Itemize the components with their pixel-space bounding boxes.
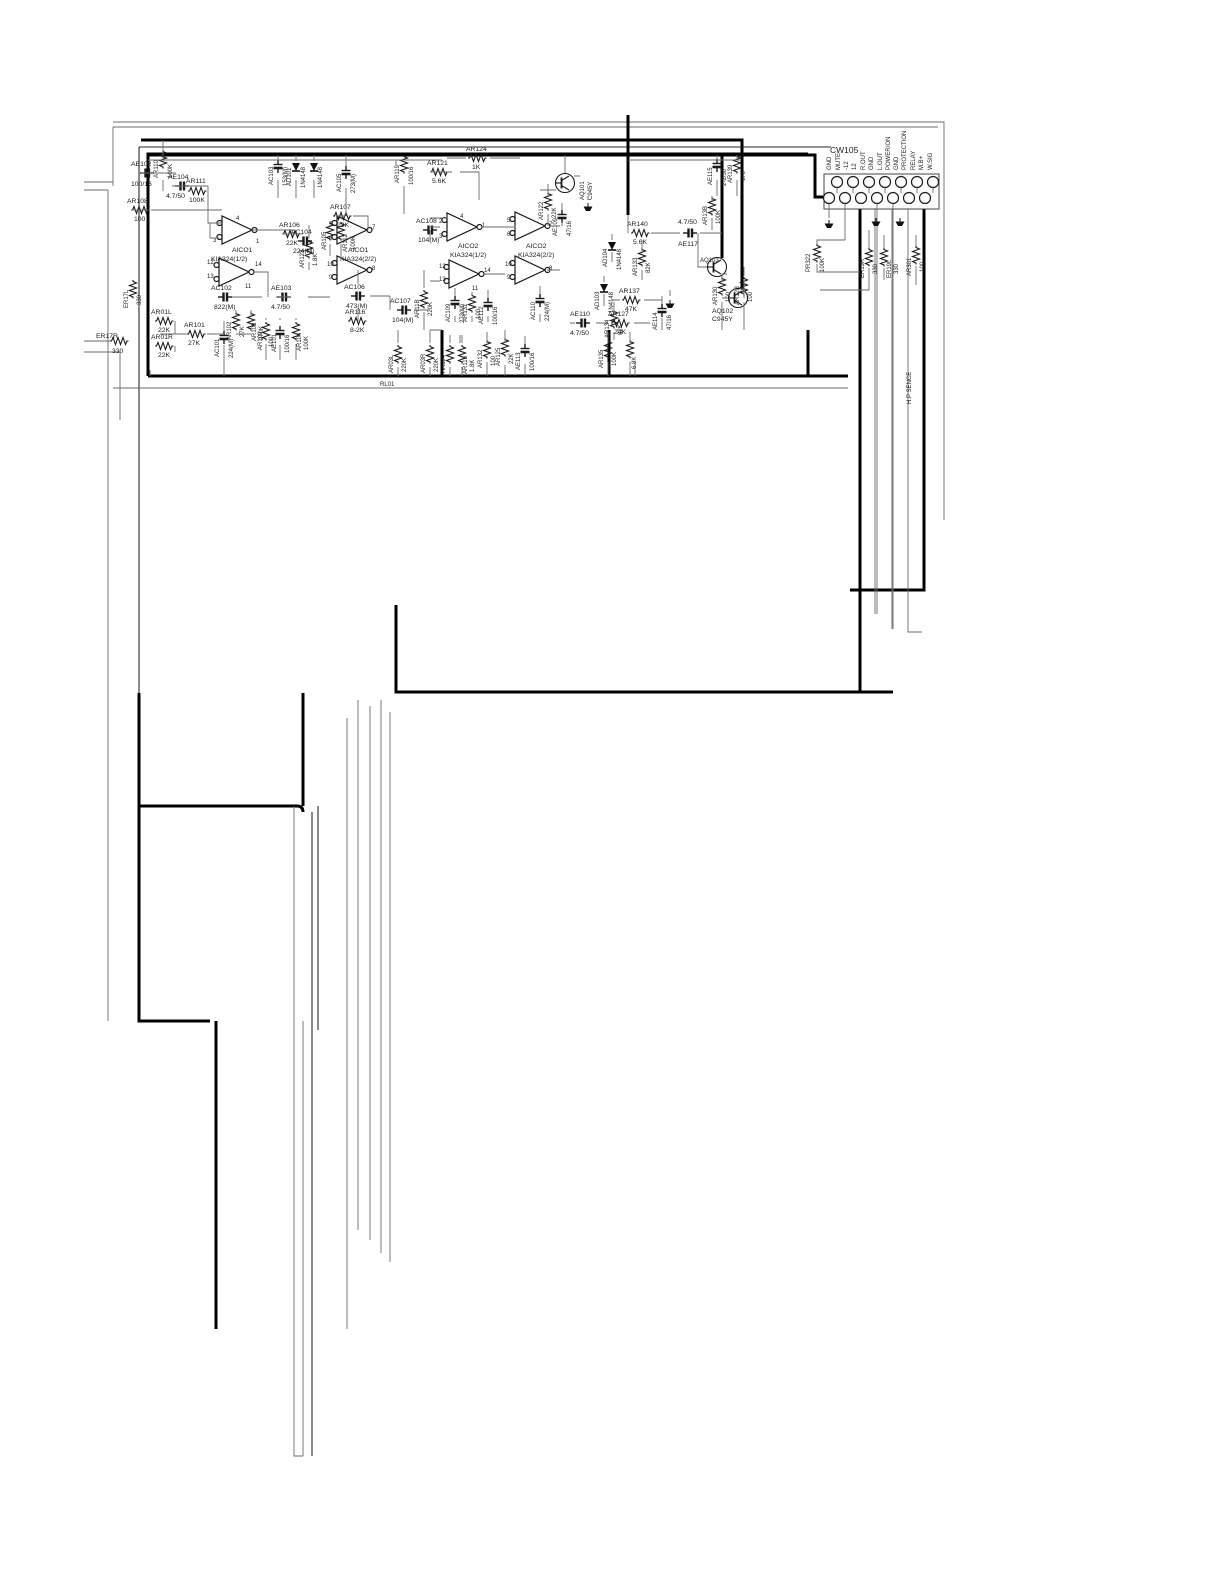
svg-text:AQ102: AQ102 — [712, 308, 733, 315]
svg-text:AR104: AR104 — [297, 332, 303, 351]
svg-text:11: 11 — [472, 286, 479, 292]
svg-text:12: 12 — [439, 264, 446, 270]
svg-text:100: 100 — [134, 216, 146, 223]
wire CW105 drop R.OUT — [891, 209, 893, 629]
svg-text:AR101: AR101 — [184, 322, 205, 329]
svg-text:AR03R: AR03R — [421, 353, 427, 373]
svg-text:220K: 220K — [428, 302, 434, 316]
wire thick notch — [807, 330, 810, 376]
svg-text:AR116: AR116 — [345, 309, 365, 316]
svg-text:KIA324(2/2): KIA324(2/2) — [518, 252, 554, 259]
svg-text:AR135: AR135 — [599, 349, 605, 368]
svg-text:AR115: AR115 — [463, 355, 469, 374]
svg-text:AD101: AD101 — [287, 167, 293, 186]
svg-text:AE102: AE102 — [131, 161, 152, 168]
resistor AR114 — [441, 345, 454, 373]
svg-text:22K: 22K — [158, 352, 171, 359]
svg-text:100K: 100K — [612, 352, 618, 366]
capacitor AE101 — [272, 326, 291, 353]
resistor AR01L — [151, 309, 174, 334]
capacitor AE113 — [516, 344, 536, 371]
op-amp AIC01 (2/2) B — [327, 256, 376, 284]
wire top bus line 2 — [113, 127, 938, 186]
svg-text:AQ103: AQ103 — [700, 258, 719, 264]
op-amp AIC01 (1/2) A — [213, 216, 260, 245]
svg-text:100K: 100K — [304, 336, 310, 350]
resistor AR03R — [421, 345, 440, 373]
svg-text:AR108: AR108 — [127, 198, 148, 205]
svg-text:22K: 22K — [158, 327, 171, 334]
op-amp AICO2 (1/2) A — [439, 213, 486, 241]
svg-text:AR11B: AR11B — [415, 299, 421, 318]
svg-text:AR106: AR106 — [279, 222, 300, 229]
svg-text:11: 11 — [245, 284, 252, 290]
wire thick mid horizontal to CW105 — [396, 605, 893, 692]
resistor AR105 — [322, 222, 334, 250]
svg-text:1.8K: 1.8K — [470, 360, 476, 372]
resistor AR134 — [605, 310, 624, 338]
wire thick branch into block — [721, 155, 724, 258]
svg-text:822(M): 822(M) — [214, 304, 236, 311]
svg-text:14: 14 — [484, 268, 491, 274]
svg-text:AE101: AE101 — [272, 333, 278, 352]
capacitor AC108 — [416, 218, 440, 244]
wire thick vertical lower block right — [608, 330, 611, 376]
svg-text:100/16: 100/16 — [285, 334, 291, 353]
svg-text:KIA324(2/2): KIA324(2/2) — [340, 256, 376, 263]
svg-text:AC102: AC102 — [211, 285, 232, 292]
op-amp AICO2 (1/2) B — [439, 260, 491, 292]
svg-text:27K: 27K — [240, 326, 246, 337]
wire op-amp block border thick — [148, 154, 848, 376]
svg-text:4.7/50: 4.7/50 — [271, 304, 290, 311]
svg-text:AR123: AR123 — [300, 249, 306, 268]
capacitor AE103 — [271, 285, 292, 311]
svg-text:670: 670 — [741, 170, 747, 181]
ground CW105 c — [896, 218, 905, 226]
resistor AR126 — [627, 340, 639, 369]
svg-text:100K: 100K — [351, 236, 357, 250]
svg-text:AR102: AR102 — [227, 321, 233, 340]
resistor AR115 — [459, 345, 477, 374]
svg-text:47/16: 47/16 — [567, 220, 573, 236]
wire RL01 net — [113, 387, 848, 389]
resistor AR132 — [478, 340, 497, 368]
wire 5.6V vertical — [312, 806, 318, 1456]
svg-text:AR119: AR119 — [395, 164, 401, 183]
ground CW105 b — [872, 218, 881, 226]
svg-text:13: 13 — [207, 274, 214, 280]
resistor AR03L — [389, 345, 408, 373]
resistor AR122 — [539, 192, 558, 220]
capacitor AC110 — [531, 294, 551, 321]
resistor AR102 — [227, 312, 246, 340]
svg-text:CW105: CW105 — [830, 145, 859, 155]
svg-text:AR01R: AR01R — [151, 334, 173, 341]
svg-text:KIA324(1/2): KIA324(1/2) — [211, 256, 247, 263]
svg-text:AR132: AR132 — [478, 349, 484, 368]
capacitor AC109 — [446, 296, 466, 323]
svg-text:C945Y: C945Y — [712, 316, 733, 323]
resistor AR116 — [345, 309, 367, 334]
wire left lower rail verticals — [294, 806, 303, 1456]
svg-text:AR124: AR124 — [466, 146, 487, 153]
svg-text:100: 100 — [748, 291, 754, 302]
svg-text:104(M): 104(M) — [418, 237, 440, 244]
resistor AR104 — [293, 322, 311, 351]
svg-text:AR01L: AR01L — [151, 309, 172, 316]
capacitor AC105 — [337, 166, 357, 193]
capacitor AE114 — [653, 304, 673, 330]
svg-text:AR131: AR131 — [463, 303, 469, 322]
capacitor AE102 — [131, 161, 154, 188]
op-amp AICO2 (2/2) B — [505, 256, 553, 284]
diode AD101 — [287, 163, 307, 188]
resistor AR109 — [258, 322, 275, 350]
wire lower-left block thick border — [139, 693, 303, 1329]
resistor AR131 — [463, 294, 482, 322]
resistor AR106 — [279, 222, 301, 247]
svg-text:AR110: AR110 — [154, 159, 160, 178]
svg-text:C945Y: C945Y — [588, 182, 594, 200]
wire CW105 drop H.P sence — [908, 209, 922, 632]
svg-text:ER19L: ER19L — [887, 259, 893, 278]
svg-text:47K: 47K — [625, 306, 638, 313]
ground AQ101 — [584, 203, 593, 211]
diode AD103 — [595, 284, 615, 313]
svg-text:273(M): 273(M) — [351, 174, 357, 193]
capacitor AE104 — [166, 174, 189, 200]
svg-text:100/16: 100/16 — [131, 181, 152, 188]
resistor ER19R — [860, 248, 879, 278]
svg-text:AR121: AR121 — [427, 160, 448, 167]
svg-text:AE103: AE103 — [271, 285, 292, 292]
svg-text:330: 330 — [873, 263, 879, 274]
svg-text:104(M): 104(M) — [392, 317, 414, 324]
svg-text:AR122: AR122 — [539, 201, 545, 220]
svg-text:100/16: 100/16 — [530, 352, 536, 371]
capacitor AE117 — [678, 219, 698, 248]
resistor AR301 — [907, 246, 926, 276]
svg-text:AD104: AD104 — [603, 248, 609, 267]
svg-text:AR140: AR140 — [627, 221, 648, 228]
svg-text:AICO2: AICO2 — [458, 243, 479, 250]
svg-text:22K: 22K — [286, 240, 299, 247]
capacitor AC101 — [215, 331, 235, 358]
wire POWER-ON vertical bundle — [347, 700, 390, 1329]
svg-text:330: 330 — [894, 263, 900, 274]
resistor AR121 — [427, 160, 449, 185]
transistor AQ101 — [556, 174, 595, 201]
svg-text:GND: GND — [827, 156, 833, 170]
svg-text:AE115: AE115 — [708, 167, 714, 185]
resistor AR110 — [154, 150, 174, 178]
svg-text:ER17L: ER17L — [124, 289, 130, 308]
svg-text:R.OUT: R.OUT — [861, 151, 867, 170]
svg-text:AR111: AR111 — [186, 178, 206, 185]
capacitor AE110 — [570, 311, 590, 337]
svg-text:13: 13 — [439, 277, 446, 283]
ground CW105 a — [825, 220, 834, 228]
op-amp AICO2 (2/2) A — [507, 212, 553, 240]
svg-text:10: 10 — [327, 262, 334, 268]
connector CW105 — [824, 145, 940, 209]
resistor AR119 — [395, 155, 415, 185]
svg-text:AE113: AE113 — [516, 352, 522, 370]
resistor AR133 — [633, 248, 652, 276]
svg-text:AR112: AR112 — [343, 233, 349, 252]
svg-text:AR109: AR109 — [258, 331, 264, 350]
svg-text:224(M): 224(M) — [545, 302, 551, 321]
svg-text:224(M): 224(M) — [229, 339, 235, 358]
resistor AR130 — [713, 277, 732, 305]
ground mid — [666, 300, 675, 308]
svg-text:M.B+: M.B+ — [919, 155, 925, 170]
resistor AR112 — [338, 222, 358, 252]
svg-text:1N4148: 1N4148 — [301, 166, 307, 188]
svg-text:1N4148: 1N4148 — [318, 166, 324, 188]
svg-text:82K: 82K — [618, 324, 624, 335]
svg-text:100K: 100K — [189, 197, 205, 204]
svg-text:AR139: AR139 — [728, 164, 734, 183]
svg-text:GND: GND — [894, 156, 900, 170]
svg-text:22K: 22K — [337, 222, 350, 229]
svg-text:AQ101: AQ101 — [580, 181, 586, 200]
svg-text:AC108: AC108 — [416, 218, 437, 225]
svg-text:AE114: AE114 — [653, 312, 659, 330]
wire top bus line 1 — [113, 122, 944, 520]
resistor AR140 — [627, 221, 650, 246]
wire CW105 drop 12 — [874, 209, 876, 614]
svg-text:AE112: AE112 — [479, 306, 485, 324]
svg-text:MUTE: MUTE — [836, 153, 842, 170]
svg-text:AR130: AR130 — [713, 286, 719, 305]
svg-text:ER17R: ER17R — [96, 333, 118, 340]
wire left edge stubs — [84, 182, 120, 352]
svg-text:12: 12 — [852, 163, 858, 170]
svg-text:100/16: 100/16 — [493, 306, 499, 325]
wire CW105 pin drops — [829, 188, 933, 629]
diode AD104 — [603, 242, 623, 270]
svg-text:AC106: AC106 — [344, 284, 365, 291]
svg-text:4.7/50: 4.7/50 — [570, 330, 589, 337]
resistor AR138 — [703, 197, 722, 225]
svg-text:-12: -12 — [844, 161, 850, 170]
svg-text:AR133: AR133 — [633, 257, 639, 276]
svg-text:AC107: AC107 — [390, 298, 411, 305]
resistor AR127 — [608, 311, 630, 336]
svg-text:KIA324(1/2): KIA324(1/2) — [450, 252, 486, 259]
resistor AR111 — [186, 178, 207, 204]
capacitor AE109 — [553, 210, 573, 236]
svg-text:5.6K: 5.6K — [432, 178, 446, 185]
svg-text:82K: 82K — [646, 262, 652, 273]
svg-text:1K: 1K — [472, 164, 481, 171]
svg-text:4.7/50: 4.7/50 — [678, 219, 697, 226]
capacitor AC102 — [211, 285, 236, 311]
resistor ER17R — [96, 333, 129, 355]
svg-text:AR107: AR107 — [330, 204, 351, 211]
svg-text:100: 100 — [491, 355, 497, 366]
resistor AR139 — [728, 155, 747, 183]
svg-text:AC101: AC101 — [215, 338, 221, 357]
wire under CW105 — [820, 230, 916, 290]
svg-text:AC109: AC109 — [446, 303, 452, 322]
resistor AR118 — [415, 290, 434, 318]
wire left verticals — [108, 190, 120, 1021]
capacitor AE112 — [479, 298, 499, 325]
svg-text:AR301: AR301 — [907, 257, 913, 276]
wire -12V rail thick — [148, 155, 824, 197]
svg-text:AR114: AR114 — [441, 354, 447, 373]
svg-text:330: 330 — [112, 348, 124, 355]
svg-text:14: 14 — [255, 262, 262, 268]
svg-text:22K: 22K — [552, 207, 558, 218]
svg-text:AE109: AE109 — [553, 217, 559, 236]
svg-text:H.P SENCE: H.P SENCE — [907, 372, 913, 404]
capacitor AC103 — [269, 160, 289, 186]
svg-text:220K: 220K — [434, 358, 440, 372]
svg-text:100K: 100K — [820, 258, 826, 272]
svg-text:AR13B: AR13B — [703, 206, 709, 225]
resistor ER17L — [124, 280, 143, 308]
svg-text:ER19R: ER19R — [860, 258, 866, 278]
resistor ER19L — [881, 248, 901, 278]
resistor AR107 — [330, 204, 352, 229]
svg-text:AR105: AR105 — [322, 231, 328, 250]
svg-text:PROTECTION: PROTECTION — [902, 131, 908, 170]
wire CW105 M.B+ drop thick — [850, 209, 924, 590]
svg-text:RL01: RL01 — [380, 382, 395, 388]
svg-text:47/16: 47/16 — [667, 314, 673, 330]
resistor AR124 — [466, 146, 487, 171]
capacitor AE115 — [708, 159, 728, 186]
svg-text:AD103: AD103 — [595, 291, 601, 310]
svg-text:100: 100 — [920, 261, 926, 272]
resistor AR128 — [735, 277, 754, 305]
resistor AR103 — [248, 312, 266, 341]
svg-text:330: 330 — [137, 294, 143, 305]
svg-text:PR322: PR322 — [806, 253, 812, 272]
svg-text:POWER/ON: POWER/ON — [886, 137, 892, 170]
transistor AQ103 — [700, 258, 727, 277]
svg-text:GND: GND — [869, 156, 875, 170]
svg-text:4.7/50: 4.7/50 — [166, 193, 185, 200]
svg-text:AC103: AC103 — [269, 166, 275, 185]
svg-text:100/16: 100/16 — [409, 166, 415, 185]
op-amp AIC01 (1/2) B — [207, 258, 262, 290]
svg-text:5.6K: 5.6K — [633, 239, 647, 246]
svg-text:1N4148: 1N4148 — [617, 248, 623, 270]
wire mid border — [139, 147, 831, 693]
capacitor AC107 — [390, 298, 414, 324]
svg-text:100K: 100K — [716, 210, 722, 224]
op-amp AIC01 (2/2) A — [329, 216, 376, 244]
svg-text:AC110: AC110 — [531, 301, 537, 320]
resistor AR125 — [496, 338, 515, 366]
svg-text:AICO2: AICO2 — [526, 243, 547, 250]
resistor AR135 — [599, 340, 618, 368]
capacitor AC104 — [291, 229, 315, 255]
svg-text:220K: 220K — [402, 358, 408, 372]
svg-text:AR03L: AR03L — [389, 354, 395, 373]
resistor AR108 — [127, 198, 150, 223]
resistor AR01R — [151, 334, 174, 359]
svg-text:AR137: AR137 — [619, 288, 640, 295]
wire CW105 MUTE drop thick — [859, 209, 862, 692]
resistor PR322 — [806, 240, 860, 272]
svg-text:10: 10 — [505, 262, 512, 268]
svg-text:L.OUT: L.OUT — [878, 152, 884, 170]
svg-text:AE117: AE117 — [678, 241, 698, 248]
wire thick vertical lower block left — [441, 330, 444, 376]
wire +12V rail thick — [141, 140, 742, 288]
svg-text:AC105: AC105 — [337, 173, 343, 192]
resistor AR101 — [184, 322, 206, 347]
wire thick vertical center of block — [627, 115, 630, 215]
svg-text:27K: 27K — [188, 340, 201, 347]
svg-text:22K: 22K — [509, 353, 515, 364]
svg-text:W.SIG: W.SIG — [928, 152, 934, 170]
svg-text:AE110: AE110 — [570, 311, 590, 318]
svg-text:AICO1: AICO1 — [232, 247, 253, 254]
resistor AR137 — [619, 288, 641, 313]
capacitor AC106 — [344, 284, 368, 310]
svg-text:1.8K: 1.8K — [313, 254, 319, 266]
transistor AQ102 — [712, 289, 748, 324]
resistor AR123 — [300, 240, 319, 268]
svg-text:RELAY: RELAY — [911, 151, 917, 170]
wire block mesh — [131, 140, 740, 330]
diode AD102 — [310, 163, 324, 188]
svg-text:8-2K: 8-2K — [350, 327, 365, 334]
